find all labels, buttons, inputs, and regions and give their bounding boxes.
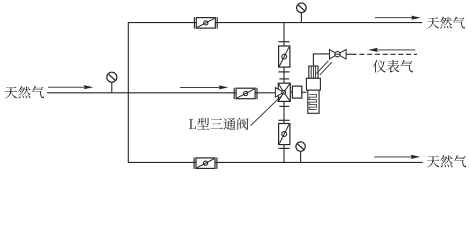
arrow: bottom outlet flow direction xyxy=(374,155,420,159)
flow meter M4 (upper column) xyxy=(279,46,290,67)
wire: bottom branch pipe xyxy=(128,161,423,163)
flow meter M1 (top branch) xyxy=(194,17,217,28)
label: L-type three-way valve xyxy=(189,118,249,130)
wire: valve to positioner xyxy=(290,91,292,93)
arrow: inlet flow direction xyxy=(48,85,93,89)
flow meter M5 (lower column) xyxy=(279,124,290,145)
pressure gauge PG3 on bottom branch xyxy=(296,142,305,162)
valve top cap xyxy=(279,78,289,80)
valve positioner (square) xyxy=(292,86,301,98)
wire: instrument gas supply (dashed) xyxy=(346,53,417,55)
arrow: instrument gas flow direction (leftward) xyxy=(368,48,415,52)
leader line to three-way valve label xyxy=(251,96,281,125)
wire: inlet natural-gas pipe (middle) xyxy=(47,92,275,94)
label: instrument gas xyxy=(373,60,413,73)
label: natural gas (top outlet) xyxy=(427,17,465,29)
wire: center metering column xyxy=(283,23,285,163)
valve bottom cap xyxy=(279,105,289,107)
flow meter M3 (middle line) xyxy=(234,88,257,99)
vent slash marks xyxy=(316,61,331,75)
regulator bonnet with stem packing xyxy=(309,66,318,78)
flange pair, lower column meter xyxy=(278,120,289,148)
L-type three-way valve body xyxy=(275,83,290,101)
wire: positioner to regulator xyxy=(302,91,307,93)
regulator upper body xyxy=(306,78,320,90)
regulator spring housing xyxy=(308,90,319,113)
label: natural gas (inlet) xyxy=(5,86,44,98)
pressure gauge PG1 on inlet xyxy=(107,72,117,93)
flow meter M2 (bottom branch) xyxy=(194,158,217,169)
pressure gauge PG2 on top branch xyxy=(297,3,307,23)
wire: left header vertical xyxy=(127,22,129,163)
arrow: middle line flow direction xyxy=(180,85,228,89)
wire: regulator to instrument-gas valve xyxy=(313,54,330,66)
flange pair, upper column meter xyxy=(278,42,289,72)
label: natural gas (bottom outlet) xyxy=(427,155,466,167)
instrument gas shutoff valve xyxy=(330,50,347,60)
wire: top branch pipe xyxy=(128,22,422,24)
arrow: top outlet flow direction xyxy=(375,16,421,20)
